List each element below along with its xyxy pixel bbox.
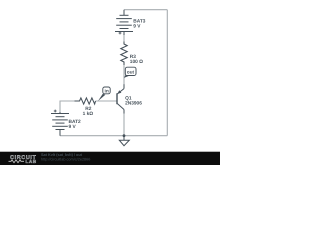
resistor R2 — [75, 98, 96, 104]
transistor Q1 — [117, 84, 124, 113]
svg-text:in: in — [105, 88, 109, 94]
svg-text:2N3906: 2N3906 — [125, 101, 142, 107]
svg-text:http://circuitlab.com/c/2e2866: http://circuitlab.com/c/2e2866 — [41, 157, 90, 161]
wire BAT2 top to R2 — [60, 101, 76, 112]
wire R3 to Q1 emitter (out node) — [123, 65, 125, 85]
flag in — [98, 87, 110, 101]
svg-text:out: out — [127, 70, 135, 75]
svg-text:LAB: LAB — [26, 159, 37, 164]
battery BAT2 — [51, 110, 69, 136]
wire R2 to Q1 base — [96, 100, 118, 102]
svg-text:100 Ω: 100 Ω — [130, 59, 143, 65]
svg-text:1 kΩ: 1 kΩ — [83, 111, 94, 117]
flag out — [124, 67, 136, 78]
logo CircuitLab — [9, 155, 37, 164]
wire top rail — [124, 9, 167, 11]
battery BAT3 — [115, 10, 133, 35]
svg-text:Sat Kvlt (sat_kvlt) / out: Sat Kvlt (sat_kvlt) / out — [41, 153, 83, 157]
wire BAT3 bottom to R3 — [123, 35, 125, 42]
svg-text:9 V: 9 V — [133, 24, 141, 30]
node junction at ground — [123, 134, 126, 137]
svg-text:BAT3: BAT3 — [133, 18, 146, 24]
wire right side — [166, 10, 168, 136]
footer bar — [0, 152, 220, 165]
wire bottom rail — [60, 135, 167, 137]
svg-text:BAT2: BAT2 — [69, 119, 82, 125]
svg-text:R2: R2 — [85, 106, 91, 112]
ground — [119, 136, 129, 146]
wire Q1 collector to ground rail — [123, 113, 125, 135]
resistor R3 — [121, 42, 127, 66]
svg-text:9 V: 9 V — [69, 124, 77, 130]
